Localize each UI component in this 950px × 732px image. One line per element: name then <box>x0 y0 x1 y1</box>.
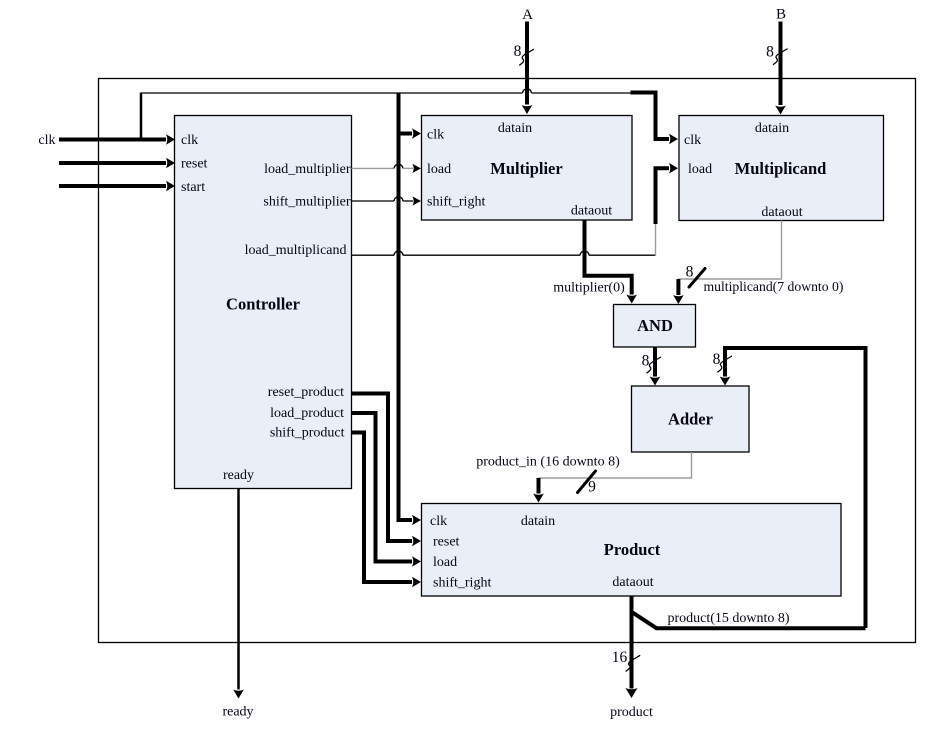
block Multiplier <box>422 116 633 221</box>
svg-text:ready: ready <box>223 468 254 483</box>
wire product output <box>630 596 634 689</box>
wire product_in gray <box>539 452 692 478</box>
svg-text:8: 8 <box>514 43 522 60</box>
svg-text:8: 8 <box>766 44 774 61</box>
svg-text:8: 8 <box>642 353 650 370</box>
svg-text:multiplier(0): multiplier(0) <box>553 281 625 296</box>
svg-text:Adder: Adder <box>668 410 713 429</box>
wire start input <box>59 184 166 188</box>
svg-text:clk: clk <box>38 133 55 148</box>
svg-text:shift_right: shift_right <box>427 195 485 210</box>
block Controller <box>175 116 352 489</box>
wire shift_product <box>352 433 413 583</box>
wire shift_multiplier <box>352 200 395 202</box>
wire load_multiplicand gray riser <box>655 223 657 256</box>
svg-text:shift_product: shift_product <box>270 426 345 441</box>
wire clk elbow to Multiplicand <box>631 93 670 140</box>
svg-text:16: 16 <box>612 649 628 666</box>
svg-text:clk: clk <box>427 128 444 143</box>
svg-text:Multiplicand: Multiplicand <box>735 159 827 178</box>
svg-text:product_in (16 downto 8): product_in (16 downto 8) <box>476 455 620 470</box>
svg-text:clk: clk <box>684 133 701 148</box>
wire load_multiplier <box>352 167 395 169</box>
wire clk distribution top <box>141 92 523 94</box>
svg-text:product: product <box>610 705 653 720</box>
svg-text:reset: reset <box>433 535 460 550</box>
slash bus product_in 9 <box>578 471 596 493</box>
svg-text:8: 8 <box>686 264 694 281</box>
wire reset_product <box>352 394 413 542</box>
svg-text:clk: clk <box>430 514 447 529</box>
svg-text:clk: clk <box>181 133 198 148</box>
svg-text:multiplicand(7 downto 0): multiplicand(7 downto 0) <box>704 279 844 295</box>
svg-text:Controller: Controller <box>226 295 300 314</box>
wire clk to Multiplier <box>399 132 413 136</box>
block Multiplicand <box>679 116 884 221</box>
wire reset input <box>59 161 166 165</box>
svg-text:dataout: dataout <box>571 204 612 219</box>
svg-text:datain: datain <box>755 121 789 136</box>
slash bus adder right 8 <box>717 356 732 372</box>
wire load_multiplicand thick riser <box>656 168 670 224</box>
svg-text:dataout: dataout <box>612 575 653 590</box>
svg-text:start: start <box>181 180 205 195</box>
svg-text:load: load <box>427 162 451 177</box>
slash bus multiplicand 8 <box>689 269 705 288</box>
svg-text:AND: AND <box>637 316 673 335</box>
wire product feedback <box>725 348 866 628</box>
slash bus A <box>519 49 534 65</box>
wire clk branch riser <box>140 93 143 141</box>
svg-text:A: A <box>522 7 533 23</box>
svg-text:datain: datain <box>498 121 532 136</box>
svg-text:ready: ready <box>222 705 253 720</box>
svg-text:B: B <box>776 7 786 23</box>
svg-text:shift_right: shift_right <box>433 576 491 591</box>
block Adder <box>632 386 750 452</box>
wire product_in arrow <box>537 478 541 494</box>
svg-text:load: load <box>433 555 457 570</box>
slash bus B <box>773 49 788 65</box>
block AND <box>614 305 696 348</box>
svg-text:load_multiplier: load_multiplier <box>264 162 351 177</box>
svg-text:Multiplier: Multiplier <box>490 159 562 178</box>
wire AND to Adder <box>653 347 657 377</box>
wire load_product <box>352 413 413 562</box>
svg-text:9: 9 <box>588 479 596 496</box>
wire input A <box>525 22 529 105</box>
wire ready output <box>237 489 240 690</box>
svg-text:load_product: load_product <box>270 406 344 421</box>
svg-text:load: load <box>688 162 712 177</box>
svg-text:8: 8 <box>713 351 721 368</box>
block Product <box>422 504 842 597</box>
wire multiplicand dataout gray <box>678 221 781 280</box>
outer boundary frame <box>99 79 916 643</box>
svg-text:reset: reset <box>181 157 208 172</box>
svg-text:product(15 downto 8): product(15 downto 8) <box>668 611 790 626</box>
wire clk to Product <box>399 518 413 520</box>
slash bus AND output 8 <box>646 357 661 373</box>
wire multiplier(0) <box>585 220 632 295</box>
wire input B <box>779 22 783 106</box>
svg-text:dataout: dataout <box>761 205 802 220</box>
wire feedback branch diagonal <box>633 613 866 629</box>
wire multiplicand into AND <box>676 279 680 295</box>
svg-text:datain: datain <box>521 514 555 529</box>
svg-text:reset_product: reset_product <box>268 385 344 400</box>
svg-text:Product: Product <box>604 540 661 559</box>
wire load_multiplicand horizontal <box>352 254 395 256</box>
slash bus product 16 <box>626 655 641 671</box>
svg-text:shift_multiplier: shift_multiplier <box>263 195 350 210</box>
wire clk input <box>59 138 166 142</box>
wire clk trunk vertical <box>397 93 401 520</box>
svg-text:load_multiplicand: load_multiplicand <box>245 243 347 258</box>
